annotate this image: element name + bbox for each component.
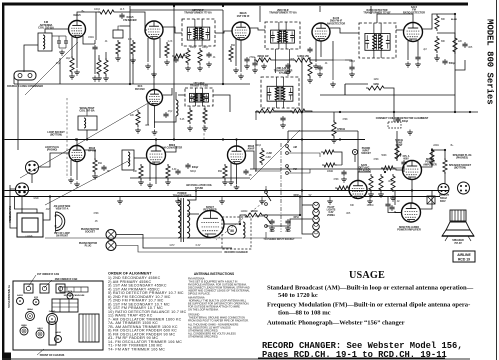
antenna AM loop side view <box>55 212 65 231</box>
ground V7 b <box>74 182 80 188</box>
wire V1 grid cap <box>94 40 96 44</box>
switch band switch lower contacts <box>265 191 271 228</box>
box record changer (dashed) <box>222 217 251 249</box>
svg-text:500pf: 500pf <box>449 62 456 65</box>
ground R21 <box>165 180 171 186</box>
wire front pointer <box>37 349 44 355</box>
wire PT to rect <box>187 213 199 215</box>
resistor R6 T1 bottom a <box>186 48 190 65</box>
svg-text:220Ω: 220Ω <box>433 145 439 147</box>
svg-text:100pf: 100pf <box>202 47 208 49</box>
svg-text:.05: .05 <box>106 171 110 173</box>
capacitor C5 V3 <box>244 57 249 63</box>
svg-text:6AL5: 6AL5 <box>37 327 43 330</box>
ground R2 <box>96 76 102 82</box>
svg-text:USAGE: USAGE <box>349 270 385 281</box>
ground heater 4 <box>259 199 265 205</box>
tube V10 6AV6 1st audio detector <box>349 181 367 199</box>
svg-text:2pf: 2pf <box>423 49 427 51</box>
ground V5 a <box>405 62 411 68</box>
node J19 <box>454 13 456 15</box>
wire switch to T5 <box>255 170 281 172</box>
wire phono socket drop <box>354 155 356 162</box>
svg-text:68K: 68K <box>441 41 446 43</box>
wire R12 right <box>307 111 312 112</box>
ground R25 <box>368 192 374 198</box>
wire filter to V2 <box>116 12 147 30</box>
text record changer note <box>262 341 463 360</box>
capacitor C12 osc <box>163 112 168 118</box>
wire phono input long <box>45 237 255 239</box>
svg-text:6.3V: 6.3V <box>196 245 201 247</box>
wire chassis callout2 <box>44 280 52 288</box>
resistor R2b RF load <box>104 58 108 76</box>
tube V6 6C4 FM oscillator <box>147 90 163 106</box>
svg-text:10MΩ: 10MΩ <box>327 171 333 173</box>
svg-text:.005: .005 <box>179 57 184 59</box>
resistor R20 V8 a <box>139 164 143 180</box>
svg-text:MODEL 800 Series: MODEL 800 Series <box>484 19 494 105</box>
transformer T4 1st AM IF <box>185 88 213 106</box>
wire trimmer gnd bus <box>59 47 66 49</box>
ground V2 c <box>164 60 170 66</box>
svg-text:22K: 22K <box>130 115 135 117</box>
svg-text:1100Ω: 1100Ω <box>241 211 248 213</box>
ground R37 <box>390 196 396 202</box>
wire V8 cath <box>155 165 157 185</box>
tube V1 6AG5 FM RF amplifier <box>69 21 86 38</box>
svg-text:6C4FM OSC: 6C4FM OSC <box>135 84 145 91</box>
wire diag pointer2 <box>45 160 130 205</box>
wire V10 top <box>357 131 359 181</box>
svg-text:B+: B+ <box>451 145 455 147</box>
wire V11V12 link <box>411 180 413 204</box>
wire avc drop x60 <box>59 58 61 84</box>
svg-text:.01: .01 <box>324 63 328 65</box>
svg-text:RCD 19: RCD 19 <box>458 258 470 262</box>
wire V10 plate <box>358 172 371 181</box>
potentiometer tone control <box>397 146 401 160</box>
ground heater 1 <box>117 199 123 205</box>
wire feed x130 <box>129 6 131 84</box>
wire wave trap top <box>86 108 88 116</box>
wire OT to plug <box>444 172 446 184</box>
wire audio line2 <box>340 169 403 170</box>
wire V9 top <box>236 140 238 147</box>
svg-text:PHONOINPUTSOCKET: PHONOINPUTSOCKET <box>361 148 371 155</box>
wire switch diag a <box>250 130 300 180</box>
capacitor C4 T1 <box>206 52 211 58</box>
tube V13 6X5GT rectifier <box>197 211 224 238</box>
wire callout diagonal <box>25 42 78 95</box>
speaker <box>442 222 474 241</box>
capacitor C2 filter <box>119 13 124 19</box>
resistor R29 filter choke <box>244 213 264 217</box>
ground C6 <box>285 70 291 76</box>
wire R11 drop <box>255 111 257 120</box>
chassis tall rect <box>49 322 56 345</box>
ground V2 b <box>151 72 157 78</box>
wire V1 cathode down <box>76 38 78 69</box>
capacitor C16 V9 <box>243 169 248 175</box>
wire loop tap <box>55 231 57 233</box>
wire V4 pins <box>315 40 317 62</box>
ground R32 <box>202 126 208 132</box>
capacitor C14 V8 <box>175 169 180 175</box>
wire chassis callout1 <box>28 275 36 287</box>
transformer T1 1st FM IF 777-BA <box>182 19 215 46</box>
wire V6 plate <box>163 88 172 95</box>
capacitor C7 screen2 <box>317 65 322 71</box>
node J29 <box>444 149 446 151</box>
wire loop wiring3 <box>43 197 50 221</box>
node J25 <box>239 223 241 225</box>
capacitor C17 coupling <box>385 202 390 208</box>
ground screen chain <box>330 82 336 88</box>
node J8 <box>339 138 341 140</box>
svg-text:68Ω: 68Ω <box>98 163 103 165</box>
wire rect out <box>224 223 240 225</box>
wire trimmer bus <box>52 35 66 37</box>
svg-text:6C4: 6C4 <box>68 290 73 293</box>
connector phono motor plug <box>106 241 116 251</box>
page bottom edge line <box>2 358 470 360</box>
capacitor C22 filter B <box>285 219 290 225</box>
svg-text:100pf: 100pf <box>94 9 100 11</box>
resistor R16 ratio b <box>435 36 439 53</box>
wire y131 link <box>288 130 358 132</box>
wire T3 to V5 <box>396 29 404 31</box>
ground heater 2 <box>175 199 181 205</box>
wire T1 feed <box>173 6 175 140</box>
wire loop to V7 <box>38 153 69 167</box>
wire T4 right <box>213 95 230 112</box>
wire top feed <box>130 9 223 11</box>
wire det bus drop <box>333 112 335 122</box>
wire T3 top <box>377 14 413 23</box>
resistor R24 tone pot <box>395 144 399 161</box>
ground C22 <box>285 226 291 232</box>
svg-text:6BE6: 6BE6 <box>21 325 27 327</box>
inductor changer coil <box>243 222 245 238</box>
wire V1 screen down <box>83 36 95 44</box>
ground T1 a <box>185 66 191 72</box>
svg-text:OUTPUT: OUTPUT <box>439 194 449 197</box>
wire V5 caps <box>407 58 409 60</box>
node J7 <box>301 138 303 140</box>
wire right vertical feed <box>454 14 456 112</box>
wire phono wires2 <box>116 246 222 253</box>
chassis gang capacitor block <box>52 299 78 312</box>
ground C26 <box>349 72 355 78</box>
resistor R23 det load <box>260 148 264 165</box>
tube V5 6AL5 FM ratio detector <box>404 23 423 42</box>
wire feed x96 <box>95 12 97 40</box>
svg-text:470K: 470K <box>342 119 348 121</box>
svg-text:.05: .05 <box>248 175 252 177</box>
node J30 <box>411 189 413 191</box>
svg-text:LOOP PLUG(PHONO): LOOP PLUG(PHONO) <box>45 146 59 152</box>
capacitor C11 500pf <box>442 59 447 65</box>
svg-text:POWERTRANSFORMER: POWERTRANSFORMER <box>173 192 192 198</box>
resistor R38 1M <box>381 166 395 170</box>
wire screen chain <box>273 59 295 61</box>
wire diag pointer <box>20 102 150 178</box>
resistor R12 T5 b <box>290 109 307 113</box>
svg-text:6AU62ND FM-IFAM DETECTOR: 6AU62ND FM-IFAM DETECTOR <box>327 17 345 25</box>
ground V6 <box>152 130 158 136</box>
wire align drop <box>393 112 395 122</box>
capacitor C25 V3 out <box>252 61 257 67</box>
box AM oscillator coil <box>122 150 134 170</box>
svg-text:1MΩ: 1MΩ <box>374 79 379 81</box>
ground V3 b <box>238 74 244 80</box>
wire PT top <box>187 191 196 201</box>
svg-text:600pf: 600pf <box>190 171 196 173</box>
node J5 <box>222 138 224 140</box>
wire feed x371 <box>370 6 372 14</box>
svg-text:PHONO MOTORPLUG: PHONO MOTORPLUG <box>79 242 98 248</box>
resistor R3b L45 <box>172 54 187 58</box>
wire C19 <box>394 190 396 205</box>
wire V2 cathode down <box>153 39 155 70</box>
svg-text:2.2K: 2.2K <box>168 41 173 43</box>
resistor R14 1M <box>366 86 386 90</box>
svg-text:ANTENNA INSTRUCTIONS: ANTENNA INSTRUCTIONS <box>194 272 234 276</box>
pilot lights <box>313 202 320 237</box>
svg-text:1ST AM-IFTRANSF 777-BB: 1ST AM-IFTRANSF 777-BB <box>190 82 208 88</box>
ground V1 cathode <box>74 70 80 76</box>
resistor R3 filter <box>98 10 116 14</box>
svg-text:OFM: OFM <box>293 195 298 197</box>
svg-text:SPEAKER: SPEAKER <box>452 239 464 242</box>
svg-text:KEY OF LOOPON FRONT: KEY OF LOOPON FRONT <box>54 233 70 238</box>
wire audio out <box>455 60 465 70</box>
ground R30 <box>307 78 313 84</box>
wire V12 left <box>395 211 402 213</box>
svg-text:68Ω: 68Ω <box>231 45 236 47</box>
wire V11 plate <box>422 150 433 167</box>
wire V12 plate <box>421 190 433 209</box>
wire switch lower links <box>255 215 264 217</box>
page right edge line <box>496 0 498 360</box>
wire T2-T5 link b <box>289 49 291 73</box>
svg-text:1500Ω: 1500Ω <box>367 205 374 207</box>
border bottom-left corner block <box>2 353 11 360</box>
svg-text:AM: AM <box>293 146 297 149</box>
wire avc drop x133 <box>132 56 134 84</box>
svg-text:1) 2ND SECONDARY 455KC2) AM P: 1) 2ND SECONDARY 455KC2) AM PRIMARY 455K… <box>108 276 187 351</box>
svg-text:47pf: 47pf <box>56 63 61 65</box>
capacitor C23 V5 <box>415 55 420 61</box>
svg-text:PHONO MOTORSOCKET: PHONO MOTORSOCKET <box>81 228 100 234</box>
wire det chain2 <box>336 152 342 165</box>
wire osc box to V8 <box>134 157 146 159</box>
svg-text:6K6GTPOWERAMPLIFIER: 6K6GTPOWERAMPLIFIER <box>423 158 437 166</box>
connector phono input socket <box>352 149 357 154</box>
resistor R19 V7 <box>93 158 97 174</box>
wire dipole down <box>17 80 19 150</box>
resistor R4 mixer grid <box>131 40 135 56</box>
svg-text:40uf: 40uf <box>270 230 275 233</box>
tube V4 6AU6 2nd FM IF - AM detector <box>312 23 330 41</box>
node J1 <box>75 138 77 140</box>
antenna loop (nested rectangles) <box>17 213 43 237</box>
wire R35 to grid <box>348 188 350 190</box>
wire tuning link 2 (dashed) <box>203 108 205 139</box>
svg-text:470K: 470K <box>333 179 339 181</box>
svg-text:SPEAKER PLUG(PHONES): SPEAKER PLUG(PHONES) <box>453 154 472 160</box>
wire right top loop <box>320 94 455 96</box>
resistor R25 V10 plate <box>369 174 373 192</box>
wire coupling1 <box>387 196 389 202</box>
node J10 <box>265 189 267 191</box>
node J28 <box>431 149 433 151</box>
switch band switch upper contacts <box>286 145 291 175</box>
wire V9 plate <box>245 151 254 169</box>
wire loop wiring2 <box>10 188 16 190</box>
node J12 <box>49 195 51 197</box>
wire pilots bus <box>302 191 312 235</box>
wire V9 pins <box>230 162 232 180</box>
wire switch lower feed <box>265 186 267 191</box>
ground R39 <box>115 56 121 62</box>
capacitor C13 V7 <box>101 165 106 171</box>
svg-text:.005: .005 <box>468 47 473 49</box>
chassis power transformer block <box>79 314 99 342</box>
switch band switch shaft (dash-dot) <box>280 143 282 232</box>
capacitor C21 filter A <box>269 219 274 225</box>
box alignment coil <box>388 122 401 128</box>
ground T1 b <box>197 66 203 72</box>
svg-text:.01: .01 <box>212 57 216 59</box>
tube V3 6BA6 2nd FM IF amplifier <box>232 22 250 40</box>
wire switch right link2 <box>289 169 310 173</box>
wire heater bus A <box>5 190 450 192</box>
ground R36 <box>378 192 384 198</box>
wire filter2 <box>264 214 300 216</box>
wire band switch drops <box>265 232 267 238</box>
wire output to OT <box>432 150 445 160</box>
ground C8 <box>280 123 286 129</box>
svg-text:.005: .005 <box>388 181 393 183</box>
transformer power transformer <box>181 198 184 242</box>
svg-text:F.MANTENNACOIL 797-BA: F.MANTENNACOIL 797-BA <box>38 20 54 30</box>
wire loop outer run <box>10 185 17 228</box>
box FM antenna coil <box>38 33 52 51</box>
svg-text:.05: .05 <box>94 221 98 223</box>
svg-text:Frequency Modulation (FM)—Buil: Frequency Modulation (FM)—Built-in or ex… <box>267 302 470 309</box>
wire R2b up <box>105 52 107 60</box>
resistor R13 470K <box>332 120 336 138</box>
node J16 <box>339 111 341 113</box>
wire filter <box>240 215 246 224</box>
capacitor C18 V10 <box>341 170 346 176</box>
node J4 <box>173 138 175 140</box>
node J26 <box>299 214 301 216</box>
svg-text:797-D7: 797-D7 <box>454 243 462 245</box>
wire phono wires <box>116 235 232 249</box>
wire V2 plate right <box>163 27 182 33</box>
svg-text:100pf: 100pf <box>190 47 196 49</box>
inductor PT secondary <box>187 200 190 238</box>
wire V4 plate <box>330 28 359 33</box>
wire osc coil up <box>175 92 177 100</box>
wire V2 grid left <box>120 25 130 27</box>
svg-text:500KΩTONECONT: 500KΩTONECONT <box>395 139 403 147</box>
resistor R10 3.3K 2W <box>293 58 312 62</box>
capacitor trimmer TR1 <box>57 36 61 48</box>
svg-text:6BA61ST FM IF: 6BA61ST FM IF <box>237 11 250 18</box>
svg-text:540 to 1720 kc: 540 to 1720 kc <box>278 292 318 299</box>
wire detector bus <box>255 111 478 113</box>
wire heater drop 1 <box>119 197 121 199</box>
ground R19 <box>92 174 98 180</box>
node J18 <box>469 111 471 113</box>
wire V9 cath <box>236 164 238 184</box>
wire osc to mixer <box>154 116 176 122</box>
svg-text:600pf: 600pf <box>192 166 198 169</box>
stamp RCD CH 19 <box>453 251 475 262</box>
wire screen drop <box>309 57 311 62</box>
resistor R22 V9 <box>223 164 227 180</box>
border top bar <box>2 3 468 6</box>
box trimmer 14.5 <box>113 30 123 38</box>
wire V4 down <box>301 57 303 191</box>
wire T4 drops2 <box>204 106 206 110</box>
wire heater drop 4 <box>261 197 263 199</box>
wire V1 pins down <box>71 36 73 58</box>
ground R22 <box>222 180 228 186</box>
wire R14 left <box>345 83 368 85</box>
box chassis outline (bottom view) <box>13 281 103 350</box>
svg-text:2.2M: 2.2M <box>265 157 270 159</box>
svg-text:3.3KΩ 2W: 3.3KΩ 2W <box>297 55 309 58</box>
inductor osc coil <box>176 100 178 116</box>
resistor R2 RF screen <box>97 58 101 76</box>
tube V12 6K6GT audio power amplifier (lower) <box>402 203 421 222</box>
resistor R18 osc grid <box>136 110 140 127</box>
svg-text:1ST UNDER IF CAN: 1ST UNDER IF CAN <box>37 273 59 276</box>
svg-text:470K: 470K <box>93 213 99 215</box>
resistor R17 ratio c <box>453 36 457 54</box>
wire C1 down <box>94 51 96 74</box>
connector phono motor socket <box>106 230 116 240</box>
svg-text:14.5: 14.5 <box>120 9 125 11</box>
ground heater 3 <box>219 199 225 205</box>
capacitor C15 600pf <box>185 163 190 169</box>
ground V4 a <box>313 64 319 70</box>
svg-text:.01: .01 <box>104 41 108 43</box>
inductor wave trap <box>84 118 86 128</box>
svg-text:6X5GTRECTIFIER: 6X5GTRECTIFIER <box>203 206 216 212</box>
wire T4 left <box>178 94 185 96</box>
svg-text:100pf: 100pf <box>255 145 261 147</box>
svg-text:2ND UNDER IF CAN: 2ND UNDER IF CAN <box>55 278 78 281</box>
node J2 <box>86 138 88 140</box>
resistor R30 V4 screen <box>308 60 312 78</box>
wire R38 right <box>395 166 404 168</box>
ground trimmers <box>59 50 65 56</box>
chassis socket labels <box>17 290 73 334</box>
resistor R21 V8 b <box>166 164 170 180</box>
wire loop inner run <box>15 196 38 213</box>
tube V9 6BA6 AM IF amplifier <box>228 146 246 164</box>
chassis IF can squares <box>24 284 65 293</box>
svg-text:Automatic Phonograph—Webster “: Automatic Phonograph—Webster “156” chang… <box>267 320 405 327</box>
svg-text:1MΩ: 1MΩ <box>373 83 378 86</box>
ground R2b <box>103 76 109 82</box>
